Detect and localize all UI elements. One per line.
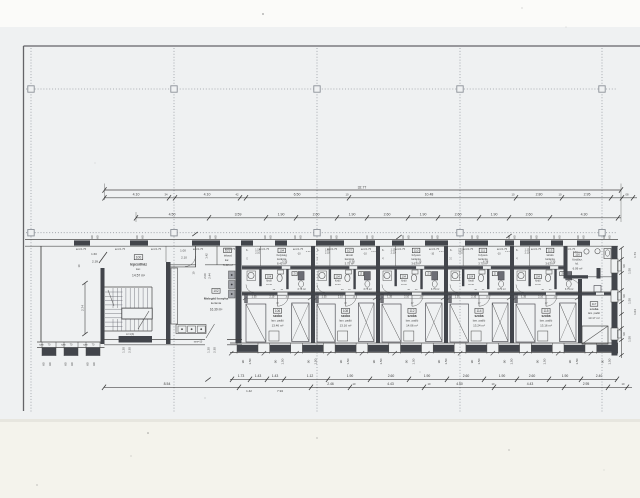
svg-text:1.43: 1.43 bbox=[255, 374, 262, 378]
svg-text:104: 104 bbox=[336, 275, 341, 279]
svg-text:90: 90 bbox=[470, 360, 474, 364]
svg-text:1.35: 1.35 bbox=[455, 296, 460, 299]
svg-text:111: 111 bbox=[481, 249, 486, 253]
module 108 bathroom divider wall bbox=[313, 265, 378, 267]
building east outer wall bbox=[612, 246, 618, 355]
module 108 corridor wall with door bbox=[313, 291, 378, 293]
svg-text:10: 10 bbox=[346, 193, 349, 197]
module 112 bathroom sink bbox=[384, 272, 390, 278]
svg-text:1.50: 1.50 bbox=[542, 358, 546, 364]
svg-text:1.50: 1.50 bbox=[444, 358, 448, 364]
module 114 hall label 111 bbox=[479, 248, 487, 253]
svg-text:1.50: 1.50 bbox=[379, 358, 383, 364]
module 106 bathroom divider wall bbox=[242, 265, 313, 267]
module 106 bathroom wc oval bbox=[278, 270, 284, 274]
module 114 wc fixture bbox=[498, 272, 504, 281]
svg-text:2.10: 2.10 bbox=[255, 252, 260, 255]
svg-text:1.15: 1.15 bbox=[371, 251, 376, 253]
module 112 bathroom partition 1 bbox=[394, 269, 396, 286]
module 115 interior dim row bbox=[514, 298, 578, 300]
svg-text:1.50: 1.50 bbox=[628, 336, 632, 342]
kitchen east fixtures bbox=[229, 271, 236, 279]
module 106 corridor wall with door bbox=[242, 291, 313, 293]
svg-text:1.90: 1.90 bbox=[278, 213, 285, 217]
svg-text:fürdősz.: fürdősz. bbox=[572, 258, 582, 262]
svg-text:1.35: 1.35 bbox=[387, 296, 392, 299]
svg-text:60: 60 bbox=[135, 235, 139, 239]
svg-text:116: 116 bbox=[575, 253, 580, 257]
module 108 wc label bbox=[359, 272, 364, 276]
svg-text:Melegítő konyha: Melegítő konyha bbox=[204, 296, 229, 300]
svg-text:2.44: 2.44 bbox=[208, 273, 212, 279]
svg-text:60: 60 bbox=[576, 235, 580, 239]
svg-text:2.10: 2.10 bbox=[338, 296, 343, 299]
end unit wall stub bbox=[597, 268, 601, 279]
svg-text:4.43: 4.43 bbox=[527, 382, 534, 386]
module 115 hall label 113 bbox=[546, 248, 554, 253]
svg-text:2.10: 2.10 bbox=[458, 252, 463, 255]
svg-text:2.60: 2.60 bbox=[529, 374, 536, 378]
module 114 bed west bbox=[450, 304, 468, 342]
module 114 bathroom partition 1 bbox=[462, 269, 464, 286]
vertical dimension 2.74 bbox=[84, 283, 86, 334]
module 115 small furniture bbox=[538, 331, 548, 341]
svg-text:102: 102 bbox=[213, 289, 219, 293]
stair run diagonals bbox=[138, 311, 149, 329]
svg-text:60: 60 bbox=[92, 362, 96, 366]
svg-text:2.95: 2.95 bbox=[584, 193, 591, 197]
svg-text:4.50: 4.50 bbox=[456, 382, 463, 386]
svg-text:16.39 m²: 16.39 m² bbox=[210, 307, 223, 311]
stairwell east wall bbox=[166, 262, 171, 344]
kitchen door leaf bbox=[206, 324, 215, 338]
svg-text:kő.: kő. bbox=[575, 263, 579, 266]
module 108 bathroom partition 1 bbox=[329, 269, 331, 286]
module 112 bathroom labels bbox=[400, 275, 407, 279]
svg-text:115: 115 bbox=[543, 309, 548, 313]
stair block outline bbox=[105, 286, 153, 288]
svg-text:tároló: tároló bbox=[346, 253, 353, 257]
svg-text:1.50: 1.50 bbox=[248, 358, 252, 364]
svg-text:60: 60 bbox=[208, 235, 212, 239]
svg-text:szm: szm bbox=[83, 344, 88, 347]
svg-text:14.06 m²: 14.06 m² bbox=[406, 323, 418, 327]
svg-text:90: 90 bbox=[339, 360, 343, 364]
room label 117 szoba east bbox=[590, 302, 598, 307]
svg-text:1.42: 1.42 bbox=[205, 253, 209, 259]
section grid horizontal dashed line lower bbox=[26, 232, 616, 234]
stair side flight treads bbox=[105, 291, 123, 293]
svg-text:112: 112 bbox=[409, 309, 414, 313]
room label 108 szoba bbox=[341, 308, 349, 313]
svg-text:1.15: 1.15 bbox=[439, 251, 444, 253]
module 106 hall partition bbox=[259, 246, 261, 266]
svg-text:1.50: 1.50 bbox=[628, 268, 632, 274]
svg-text:ker.: ker. bbox=[136, 267, 141, 271]
module 112 bathroom wc oval bbox=[412, 270, 418, 274]
stairwell 100 west wall bbox=[101, 268, 105, 344]
svg-text:8.54: 8.54 bbox=[164, 382, 171, 386]
module 115 bathroom partition 2 bbox=[554, 269, 556, 289]
svg-text:60: 60 bbox=[407, 235, 411, 239]
svg-text:2.74: 2.74 bbox=[80, 305, 84, 311]
svg-text:1.90: 1.90 bbox=[349, 213, 356, 217]
svg-text:2.60: 2.60 bbox=[384, 213, 391, 217]
module 114 hall partition bbox=[462, 246, 464, 266]
svg-text:60: 60 bbox=[70, 362, 74, 366]
svg-text:100: 100 bbox=[136, 256, 142, 260]
svg-text:104: 104 bbox=[536, 275, 541, 279]
grid square markers bbox=[28, 86, 34, 92]
svg-text:6.09 m²: 6.09 m² bbox=[573, 266, 583, 270]
svg-text:2.10: 2.10 bbox=[471, 296, 476, 299]
svg-text:2.30: 2.30 bbox=[213, 347, 217, 353]
module 112 interior dim row bbox=[380, 298, 444, 300]
svg-text:am=1.75: am=1.75 bbox=[193, 247, 204, 251]
module 106 bathroom partition 2 bbox=[286, 269, 288, 289]
bottom dimension line upper bbox=[230, 378, 618, 380]
svg-text:am=1.75: am=1.75 bbox=[151, 247, 162, 251]
svg-text:1.90: 1.90 bbox=[562, 374, 569, 378]
module 114 interior dim row bbox=[448, 298, 510, 300]
svg-text:60: 60 bbox=[436, 235, 440, 239]
svg-text:104: 104 bbox=[402, 275, 407, 279]
module 112 door swing bbox=[412, 295, 423, 306]
svg-text:fürdő: fürdő bbox=[468, 280, 474, 283]
svg-text:lam. padló: lam. padló bbox=[540, 318, 553, 322]
bottom wall window blocks bbox=[237, 345, 258, 352]
svg-text:fürdő: fürdő bbox=[535, 280, 541, 283]
module 114 bathroom divider wall bbox=[446, 265, 512, 267]
svg-text:90: 90 bbox=[622, 332, 626, 336]
svg-text:1.50: 1.50 bbox=[412, 358, 416, 364]
kitchen west counter bbox=[171, 268, 178, 324]
svg-text:kar.: kar. bbox=[225, 258, 229, 262]
room label 102 kitchen bbox=[212, 288, 220, 293]
module 108 bathroom door arc bbox=[317, 285, 325, 293]
module 112 bathroom divider wall bbox=[378, 265, 446, 267]
stair entrance door block bbox=[119, 336, 152, 343]
svg-text:13.16 m²: 13.16 m² bbox=[340, 323, 352, 327]
svg-text:60: 60 bbox=[365, 235, 369, 239]
svg-text:szoba: szoba bbox=[541, 314, 550, 318]
module 108 hall label 107 bbox=[346, 248, 354, 253]
svg-text:am=1.75: am=1.75 bbox=[463, 247, 474, 251]
svg-text:fürdő: fürdő bbox=[335, 280, 341, 283]
module 114 wc label bbox=[492, 272, 497, 276]
svg-text:110: 110 bbox=[414, 249, 419, 253]
svg-text:5.42 m²: 5.42 m² bbox=[223, 263, 233, 267]
module separator walls bbox=[311, 246, 315, 343]
svg-text:60: 60 bbox=[90, 235, 94, 239]
bottom paper strip bbox=[0, 419, 640, 498]
svg-text:2.46: 2.46 bbox=[327, 382, 334, 386]
stairwell bottom wall bbox=[104, 338, 176, 340]
module 106 wc fixture bbox=[298, 272, 304, 281]
svg-text:1.73: 1.73 bbox=[633, 252, 637, 258]
svg-text:10.46: 10.46 bbox=[266, 284, 272, 286]
svg-text:90: 90 bbox=[306, 360, 310, 364]
svg-text:3.75 m²: 3.75 m² bbox=[431, 288, 440, 291]
building top outer wall bbox=[25, 239, 618, 241]
module 112 wardrobe east bbox=[426, 303, 442, 342]
svg-text:4.50: 4.50 bbox=[169, 213, 176, 217]
svg-text:lépcsőház: lépcsőház bbox=[130, 262, 147, 266]
svg-text:fürdő: fürdő bbox=[266, 280, 272, 283]
svg-text:60: 60 bbox=[582, 235, 586, 239]
svg-text:2.10: 2.10 bbox=[181, 256, 187, 260]
sheet border top line bbox=[24, 45, 640, 47]
scanned paper area bbox=[0, 27, 640, 419]
module 114 bathroom wc oval bbox=[479, 270, 485, 274]
svg-text:3.35: 3.35 bbox=[282, 260, 288, 264]
svg-text:1.50: 1.50 bbox=[510, 358, 514, 364]
svg-text:60: 60 bbox=[96, 235, 100, 239]
module 114 bathroom sink bbox=[452, 272, 458, 278]
svg-text:60: 60 bbox=[430, 235, 434, 239]
svg-text:lam. padló: lam. padló bbox=[406, 318, 419, 322]
module 106 bathroom partition 1 bbox=[259, 269, 261, 286]
svg-text:1.90: 1.90 bbox=[424, 374, 431, 378]
svg-text:60: 60 bbox=[535, 235, 539, 239]
east wall windows bbox=[611, 259, 618, 273]
svg-text:114: 114 bbox=[476, 309, 481, 313]
module 115 wc fixture bbox=[566, 272, 572, 281]
svg-text:13.46 m²: 13.46 m² bbox=[272, 323, 284, 327]
svg-text:2.80: 2.80 bbox=[536, 193, 543, 197]
module 106 small furniture bbox=[269, 331, 279, 341]
module 114 wardrobe east bbox=[492, 303, 508, 342]
svg-text:42: 42 bbox=[236, 193, 239, 197]
svg-text:90: 90 bbox=[535, 360, 539, 364]
svg-text:60: 60 bbox=[329, 235, 333, 239]
module 112 hall partition bbox=[395, 246, 397, 266]
module 115 hall partition bbox=[529, 246, 531, 266]
svg-text:szoba: szoba bbox=[474, 314, 483, 318]
module 115 bathroom wc oval bbox=[546, 270, 552, 274]
module 108 interior dim row bbox=[315, 298, 376, 300]
stairwell room label 100 bbox=[134, 255, 143, 260]
svg-text:14.57 m²: 14.57 m² bbox=[132, 274, 146, 278]
svg-text:13.16 m²: 13.16 m² bbox=[540, 323, 552, 327]
svg-text:2.60: 2.60 bbox=[526, 213, 533, 217]
svg-text:1.12: 1.12 bbox=[307, 374, 314, 378]
module 114 corridor wall with door bbox=[446, 291, 512, 293]
module 114 bathroom door arc bbox=[450, 285, 458, 293]
svg-text:1.50: 1.50 bbox=[608, 358, 612, 364]
module 106 interior dim row bbox=[244, 298, 311, 300]
svg-text:117: 117 bbox=[592, 302, 597, 306]
module 115 bathroom divider wall bbox=[512, 265, 564, 267]
end unit bed bbox=[582, 326, 608, 344]
module 115 wardrobe east bbox=[560, 303, 576, 342]
svg-text:13.17 m²: 13.17 m² bbox=[588, 316, 599, 320]
svg-text:folyosó: folyosó bbox=[479, 253, 488, 257]
svg-text:10.46: 10.46 bbox=[335, 284, 341, 286]
svg-text:K-: K- bbox=[246, 250, 249, 252]
svg-text:60: 60 bbox=[513, 235, 517, 239]
svg-text:106: 106 bbox=[275, 309, 281, 313]
svg-text:helyiség: helyiség bbox=[277, 253, 288, 257]
module 115 bathroom sink bbox=[518, 272, 524, 278]
svg-text:m=1(b): m=1(b) bbox=[126, 332, 134, 336]
svg-text:1.90: 1.90 bbox=[347, 374, 354, 378]
tick marks on lower grid row bbox=[192, 232, 197, 236]
svg-text:szm: szm bbox=[61, 344, 66, 347]
dimension line C bbox=[136, 217, 621, 219]
svg-text:K-: K- bbox=[317, 250, 320, 252]
module 106 bathroom sink bbox=[248, 272, 254, 278]
module 106 bathroom door arc bbox=[246, 285, 254, 293]
svg-text:2.60: 2.60 bbox=[463, 374, 470, 378]
room label 112 szoba bbox=[408, 308, 416, 313]
svg-text:60: 60 bbox=[263, 235, 267, 239]
svg-text:90: 90 bbox=[274, 360, 278, 364]
module 115 bathroom labels bbox=[534, 275, 541, 279]
svg-text:2.00: 2.00 bbox=[203, 273, 207, 279]
svg-text:90: 90 bbox=[437, 360, 441, 364]
svg-text:3.75 m²: 3.75 m² bbox=[497, 288, 506, 291]
svg-text:1.42: 1.42 bbox=[246, 389, 252, 393]
bottom dimension line lower bbox=[104, 386, 632, 388]
module 114 bathroom partition 2 bbox=[487, 269, 489, 289]
room label 116 bathroom bbox=[574, 252, 582, 257]
svg-text:34: 34 bbox=[165, 193, 168, 197]
module 114 small furniture bbox=[471, 331, 481, 341]
svg-text:szm: szm bbox=[39, 344, 44, 347]
svg-text:10.48: 10.48 bbox=[425, 193, 434, 197]
svg-text:60: 60 bbox=[141, 235, 145, 239]
svg-text:60: 60 bbox=[269, 235, 273, 239]
svg-text:2.60: 2.60 bbox=[388, 374, 395, 378]
module 114 bathroom labels bbox=[468, 275, 475, 279]
module 115 door swing bbox=[546, 295, 557, 306]
module 106 hall label 104 bbox=[278, 248, 286, 253]
module 108 bed west bbox=[317, 304, 335, 342]
stair landing bbox=[122, 308, 152, 319]
svg-text:90: 90 bbox=[372, 360, 376, 364]
svg-text:1.90: 1.90 bbox=[491, 213, 498, 217]
svg-text:113: 113 bbox=[548, 249, 553, 253]
svg-text:am=1.75: am=1.75 bbox=[76, 247, 87, 251]
module 108 bathroom wc oval bbox=[346, 270, 352, 274]
svg-text:K-: K- bbox=[516, 250, 519, 252]
module 112 bed west bbox=[382, 304, 401, 342]
svg-text:lam. padló: lam. padló bbox=[588, 311, 601, 315]
stair treads lower flight bbox=[112, 319, 114, 331]
module 108 hall partition bbox=[329, 246, 331, 266]
svg-text:60: 60 bbox=[401, 235, 405, 239]
svg-text:90: 90 bbox=[241, 360, 245, 364]
module 108 bathroom partition 2 bbox=[353, 269, 355, 289]
bottom wall window block gap ticks bbox=[229, 351, 233, 355]
module 112 corridor wall with door bbox=[378, 291, 446, 293]
module 115 bed west bbox=[516, 304, 535, 342]
module separator wall at end unit bbox=[578, 279, 582, 343]
svg-text:K-: K- bbox=[450, 250, 453, 252]
svg-text:am=1.75: am=1.75 bbox=[361, 247, 372, 251]
svg-text:60: 60 bbox=[214, 235, 218, 239]
end unit shaft box bbox=[594, 286, 601, 293]
room label 114 szoba bbox=[475, 308, 483, 313]
svg-text:lam. padló: lam. padló bbox=[271, 318, 284, 322]
svg-text:1.50: 1.50 bbox=[575, 358, 579, 364]
room label 115 szoba bbox=[542, 308, 550, 313]
svg-text:60: 60 bbox=[48, 362, 52, 366]
svg-text:60: 60 bbox=[602, 235, 606, 239]
bathroom 116 door swing bbox=[568, 279, 582, 293]
svg-text:10.46: 10.46 bbox=[468, 284, 474, 286]
svg-text:90: 90 bbox=[601, 360, 605, 364]
module 108 door swing bbox=[346, 295, 357, 306]
svg-text:kerámia: kerámia bbox=[211, 301, 222, 305]
top wall pier segments bbox=[74, 240, 90, 245]
svg-text:6.50: 6.50 bbox=[294, 193, 301, 197]
svg-text:1.35: 1.35 bbox=[322, 296, 327, 299]
module 115 bathroom partition 1 bbox=[528, 269, 530, 286]
svg-text:3.59: 3.59 bbox=[235, 213, 242, 217]
svg-text:4.30: 4.30 bbox=[581, 213, 588, 217]
svg-text:60: 60 bbox=[335, 235, 339, 239]
module 115 bathroom door arc bbox=[516, 285, 524, 293]
module 112 wc label bbox=[426, 272, 431, 276]
svg-text:32.77: 32.77 bbox=[358, 185, 367, 189]
module 115 wc label bbox=[560, 272, 565, 276]
svg-text:2.10: 2.10 bbox=[269, 296, 274, 299]
section grid horizontal dashed line upper bbox=[26, 88, 616, 90]
svg-text:6.38: 6.38 bbox=[483, 260, 489, 264]
svg-text:60: 60 bbox=[299, 235, 303, 239]
svg-text:60: 60 bbox=[558, 235, 562, 239]
module 112 bathroom door arc bbox=[382, 285, 390, 293]
module 108 small furniture bbox=[338, 331, 348, 341]
svg-text:2.39: 2.39 bbox=[92, 260, 98, 264]
section grid vertical dashed lines bbox=[30, 48, 32, 413]
svg-text:1.50: 1.50 bbox=[477, 358, 481, 364]
dimension line B bbox=[105, 197, 638, 199]
svg-text:am=1.75: am=1.75 bbox=[293, 247, 304, 251]
svg-text:2.10: 2.10 bbox=[391, 252, 396, 255]
svg-text:szoba: szoba bbox=[341, 314, 350, 318]
svg-text:7.94: 7.94 bbox=[277, 389, 283, 393]
module 115 corridor wall with door bbox=[512, 291, 580, 293]
dimension line A total 32.77 bbox=[105, 189, 622, 191]
svg-text:szm=10: szm=10 bbox=[194, 341, 203, 344]
svg-text:szoba: szoba bbox=[590, 307, 599, 311]
svg-text:1.90: 1.90 bbox=[499, 374, 506, 378]
svg-text:1.00: 1.00 bbox=[180, 249, 186, 253]
svg-text:am=1.75: am=1.75 bbox=[115, 247, 126, 251]
svg-text:90: 90 bbox=[622, 264, 626, 268]
svg-text:1.35: 1.35 bbox=[521, 296, 526, 299]
svg-text:am=1.75: am=1.75 bbox=[531, 247, 542, 251]
svg-text:1.15: 1.15 bbox=[505, 251, 510, 253]
svg-text:10: 10 bbox=[559, 193, 562, 197]
svg-text:1.50: 1.50 bbox=[281, 358, 285, 364]
room label 101 bbox=[224, 248, 232, 253]
module 112 bathroom partition 2 bbox=[420, 269, 422, 289]
svg-text:folyosó: folyosó bbox=[412, 253, 421, 257]
svg-text:2.95: 2.95 bbox=[583, 382, 590, 386]
module 114 door swing bbox=[479, 295, 490, 306]
svg-text:tároló: tároló bbox=[547, 253, 554, 257]
svg-text:1.04: 1.04 bbox=[633, 309, 637, 315]
module 108 wardrobe east bbox=[359, 303, 375, 342]
module 106 door swing bbox=[278, 295, 289, 306]
module 108 wc fixture bbox=[364, 272, 370, 281]
svg-text:4.10: 4.10 bbox=[133, 193, 140, 197]
svg-text:1.20: 1.20 bbox=[122, 347, 126, 353]
